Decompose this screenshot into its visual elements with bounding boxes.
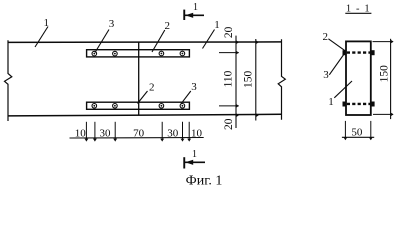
section mark 1 bottom bbox=[183, 149, 205, 169]
extension line top bolt row bbox=[219, 52, 239, 54]
svg-text:10: 10 bbox=[191, 127, 203, 139]
svg-text:110: 110 bbox=[223, 70, 235, 87]
svg-text:70: 70 bbox=[133, 127, 145, 139]
svg-text:150: 150 bbox=[243, 70, 255, 88]
svg-text:30: 30 bbox=[100, 127, 112, 139]
beam bottom chord line bbox=[8, 114, 282, 116]
right inner dimension line (20/110/20) bbox=[235, 36, 237, 128]
svg-text:30: 30 bbox=[167, 127, 179, 139]
section 50 dimension bbox=[342, 121, 374, 140]
svg-text:50: 50 bbox=[351, 126, 363, 138]
top splice plate 2 bbox=[87, 50, 190, 57]
svg-text:3: 3 bbox=[191, 81, 197, 93]
svg-text:20: 20 bbox=[223, 26, 235, 38]
section label 1 bbox=[328, 81, 352, 108]
right break line (zigzag) bbox=[278, 39, 285, 120]
svg-text:10: 10 bbox=[75, 127, 87, 139]
label 1 (right beam element) bbox=[203, 19, 220, 49]
svg-text:1: 1 bbox=[214, 19, 220, 31]
svg-text:1: 1 bbox=[328, 96, 334, 108]
label 3 (bottom bolt) bbox=[181, 81, 197, 104]
svg-text:3: 3 bbox=[109, 18, 115, 30]
section mark 1 top bbox=[183, 2, 204, 20]
section bottom bolt heads bbox=[343, 102, 347, 107]
right outer dimension line (150) bbox=[255, 39, 257, 121]
svg-text:Фиг. 1: Фиг. 1 bbox=[186, 174, 223, 187]
section bottom bolt (dashed) bbox=[347, 103, 370, 105]
label 2 (bottom plate) bbox=[138, 81, 155, 103]
svg-text:2: 2 bbox=[322, 31, 328, 43]
section label 3 bbox=[323, 53, 345, 81]
left break line (zigzag) bbox=[5, 40, 12, 121]
bottom dimension chain line bbox=[70, 137, 204, 140]
label 2 (top plate) bbox=[152, 20, 170, 52]
svg-text:3: 3 bbox=[323, 69, 329, 81]
joint line between beam elements bbox=[138, 42, 140, 115]
beam top chord line bbox=[8, 41, 282, 44]
bolt 3 top row bbox=[92, 51, 185, 56]
svg-text:1: 1 bbox=[193, 2, 198, 13]
section top bolt heads bbox=[343, 50, 347, 55]
extension line bottom bolt row bbox=[219, 105, 239, 107]
svg-text:2: 2 bbox=[149, 81, 155, 93]
svg-text:150: 150 bbox=[378, 65, 390, 83]
svg-text:1: 1 bbox=[192, 149, 197, 160]
svg-text:1: 1 bbox=[44, 17, 50, 29]
label 3 (top, bolt) bbox=[95, 18, 115, 52]
bolt 3 bottom row bbox=[92, 104, 185, 109]
section title 1-1 bbox=[345, 3, 371, 14]
label 1 (left beam element) bbox=[35, 17, 49, 47]
ticks bottom chain bbox=[85, 139, 192, 142]
extension lines bottom chain bbox=[86, 122, 189, 140]
section 150 dimension bbox=[373, 39, 394, 119]
bottom splice plate 2 bbox=[87, 102, 190, 109]
svg-text:2: 2 bbox=[165, 20, 171, 32]
section top bolt (dashed) bbox=[347, 51, 370, 53]
section beam outline bbox=[346, 41, 371, 115]
svg-text:1 - 1: 1 - 1 bbox=[346, 3, 371, 14]
dimension ticks right bbox=[236, 40, 259, 117]
svg-text:20: 20 bbox=[223, 118, 235, 130]
section label 2 bbox=[322, 31, 345, 51]
